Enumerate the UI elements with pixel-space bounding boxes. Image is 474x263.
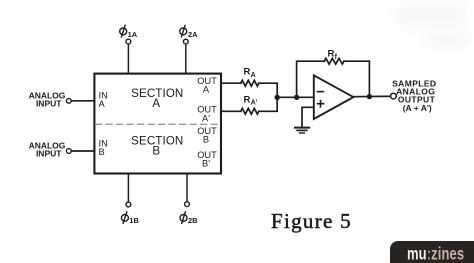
resistor RA [241,80,259,86]
svg-text:2A: 2A [188,30,198,39]
output wire [353,95,390,97]
wire OUT A' to resistor RA' [221,110,241,112]
svg-text:R: R [244,67,251,78]
svg-text:INPUT: INPUT [36,98,62,108]
label phi2B [180,211,198,225]
muzines logo [390,241,474,263]
label phi1A [120,25,138,39]
resistor Rf [324,58,344,64]
svg-text:R: R [328,49,335,60]
svg-text:B': B' [202,159,210,169]
svg-text:B: B [152,145,160,158]
label resistor RA [244,67,256,79]
summing node dot [294,95,299,100]
label resistor RA' [244,94,258,106]
clock terminal phi1B [126,174,131,207]
resistor RA' [241,108,259,114]
wire RA to junction [259,83,277,97]
svg-text:INPUT: INPUT [36,148,62,158]
op-amp minus sign [317,91,323,93]
ground symbol [295,128,309,133]
pin label IN A [99,90,108,109]
label ANALOG INPUT (B) [29,141,66,159]
feedback wire left side up [297,61,325,96]
svg-text:A: A [203,85,210,95]
svg-text:A: A [152,97,160,110]
analog input B terminal [66,149,94,154]
clock terminal phi2B [185,174,190,207]
svg-text:B: B [203,134,209,144]
wire junction to summing node [277,96,296,98]
label ANALOG INPUT (A) [29,91,66,109]
svg-text:A: A [251,72,256,79]
pin label OUT A [197,76,217,95]
output terminal circle [391,93,397,99]
svg-text:1B: 1B [129,216,139,225]
label resistor Rf [328,49,338,61]
output feedback dot [367,94,372,99]
feedback wire right side down [344,61,369,96]
pin label OUT B' [197,150,217,169]
label SECTION A [131,87,183,110]
pin label OUT B [197,126,217,144]
clock terminal phi2A [183,39,188,73]
pin label IN B [99,139,108,158]
wire OUT A to resistor RA [221,82,241,84]
junction dot RA/RA' [275,95,280,100]
svg-text:1A: 1A [128,30,138,39]
svg-text:A': A' [202,114,210,124]
section divider dashed line [96,123,220,125]
label SECTION B [131,135,183,158]
label SAMPLED ANALOG OUTPUT (A + A') [392,79,436,113]
svg-text:A': A' [251,100,258,107]
label phi1B [121,211,139,225]
svg-text:R: R [244,94,251,105]
clock terminal phi1A [126,39,131,73]
section block (sample/hold IC) [94,74,221,174]
svg-text:f: f [335,54,338,61]
svg-text:A: A [99,99,106,109]
wire summing node to op-amp inverting input [297,96,314,98]
wire RA' to junction [259,97,277,111]
wire op-amp non-inverting input to ground [302,107,314,127]
label phi2A [180,25,198,39]
svg-text:(A + A'): (A + A') [403,103,432,113]
op-amp plus sign [318,101,324,107]
op-amp U1 [314,75,354,119]
pin label OUT A' [197,105,217,124]
caption Figure 5 [271,209,352,234]
svg-text:2B: 2B [188,216,198,225]
svg-text:B: B [99,147,105,157]
analog input A terminal [66,98,94,103]
